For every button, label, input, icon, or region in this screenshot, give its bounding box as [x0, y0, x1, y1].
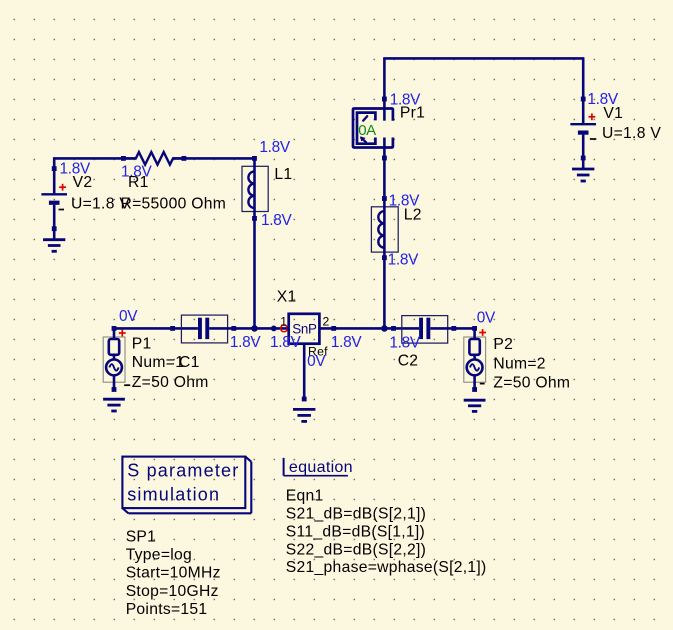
label V2 value: [71, 196, 130, 213]
power port P1: [103, 328, 125, 389]
label C1 name: [179, 354, 200, 371]
label SP1 Start: [126, 565, 221, 582]
svg-text:S parameter: S parameter: [127, 461, 239, 481]
wire down to V1: [582, 58, 585, 99]
wire V2 top vertical stub: [53, 157, 56, 168]
P1 plus sign: [119, 330, 126, 337]
ground below X1 Ref: [293, 409, 315, 421]
junction node L2/main line: [381, 325, 388, 332]
label Pr1 name: [400, 104, 425, 121]
svg-text:Eqn1: Eqn1: [286, 488, 324, 505]
X1 pin 2 label: [323, 315, 330, 329]
node V1 minus terminal: [581, 156, 586, 161]
label P1 Num: [132, 354, 184, 371]
inductor L2: [371, 199, 398, 258]
label R1 name: [128, 174, 149, 191]
svg-text:Num=2: Num=2: [493, 356, 545, 373]
svg-text:simulation: simulation: [127, 485, 220, 505]
wire C2 to P2 corner: [430, 327, 474, 330]
wire V2 to ground: [53, 229, 56, 239]
svg-text:P2: P2: [493, 336, 513, 353]
node R1 left port: [121, 156, 126, 161]
node label X1 port1 1.8V: [270, 334, 301, 351]
label SP1 Points: [126, 601, 208, 618]
svg-text:SP1: SP1: [126, 529, 157, 546]
node label V1 1.8V: [587, 91, 618, 108]
label P2 name: [493, 336, 513, 353]
node C2 left port: [391, 326, 396, 331]
X1 pin 1 label: [280, 315, 287, 329]
svg-text:S22_dB=dB(S[2,2]): S22_dB=dB(S[2,2]): [286, 541, 426, 558]
node P1 top corner: [112, 326, 117, 331]
svg-text:Stop=10GHz: Stop=10GHz: [126, 583, 219, 600]
svg-text:1.8V: 1.8V: [259, 139, 290, 156]
equation block Eqn1: [284, 458, 353, 476]
node L2 top port: [382, 196, 387, 201]
label P1 name: [132, 335, 152, 352]
svg-text:1.8V: 1.8V: [389, 334, 420, 351]
power port P2: [464, 328, 486, 389]
svg-text:S21_dB=dB(S[2,1]): S21_dB=dB(S[2,1]): [286, 506, 426, 523]
svg-text:0V: 0V: [119, 308, 138, 325]
label P2 Num: [493, 356, 545, 373]
svg-text:0V: 0V: [477, 309, 496, 326]
node label L2 bottom 1.8V: [388, 251, 419, 268]
ground below P2: [464, 400, 486, 411]
node label R1 left 1.8V: [121, 164, 152, 181]
ground below V1: [572, 169, 594, 181]
wire L2 down to main line: [383, 258, 386, 329]
V1 minus sign: [590, 138, 596, 140]
node X1 port 1: [271, 326, 277, 332]
P2 minus sign: [480, 383, 485, 385]
V2 minus sign: [59, 209, 64, 211]
wire P1 to C1: [114, 327, 198, 330]
node L1 top corner junction: [252, 156, 257, 161]
node label Ref 0V: [307, 353, 326, 370]
label V2 name: [73, 174, 93, 191]
junction node L1/main line: [251, 325, 258, 332]
label P1 Z: [132, 374, 209, 391]
node C2 right port: [451, 326, 456, 331]
svg-text:1: 1: [280, 315, 287, 329]
svg-text:1.8V: 1.8V: [331, 334, 362, 351]
svg-text:2: 2: [323, 315, 330, 329]
svg-text:C2: C2: [398, 353, 419, 370]
S parameter simulation block SP1: [122, 457, 251, 514]
node Ref wire end: [302, 397, 307, 402]
node P2 top corner: [472, 326, 477, 331]
node label Pr1 top 1.8V: [390, 91, 421, 108]
svg-text:Z=50 Ohm: Z=50 Ohm: [493, 374, 570, 391]
svg-text:1.8V: 1.8V: [230, 334, 261, 351]
svg-text:R=55000 Ohm: R=55000 Ohm: [121, 196, 227, 213]
svg-text:C1: C1: [179, 354, 200, 371]
V2 plus sign: [59, 184, 66, 191]
resistor R1: [123, 152, 183, 165]
svg-text:L1: L1: [274, 166, 292, 183]
svg-text:0A: 0A: [358, 122, 376, 139]
label L1 name: [274, 166, 292, 183]
svg-text:Points=151: Points=151: [126, 601, 208, 618]
wire top-left horizontal from V2 to R1: [54, 157, 136, 160]
node P1 bottom: [112, 387, 117, 392]
node V2 minus terminal: [52, 226, 57, 231]
wire R1 to L1 top corner: [172, 157, 254, 160]
inductor L1: [242, 158, 268, 218]
node X1 port 2: [331, 326, 336, 331]
svg-text:Type=log: Type=log: [126, 547, 192, 564]
S-parameter file X1: [289, 314, 320, 344]
equation line S21_phase: [286, 559, 487, 576]
node label P1 0V: [119, 308, 138, 325]
node P2 bottom: [472, 387, 477, 392]
equation line S21_dB: [286, 506, 426, 523]
label Eqn1 name: [286, 488, 324, 505]
node label L2 top 1.8V: [389, 192, 420, 209]
label R1 value: [121, 196, 227, 213]
wire top horizontal Pr1 to V1: [383, 57, 584, 60]
P1 minus sign: [124, 384, 130, 386]
equation line S22_dB: [286, 541, 426, 558]
node Pr1 bottom port: [382, 156, 387, 161]
svg-text:S21_phase=wphase(S[2,1]): S21_phase=wphase(S[2,1]): [286, 559, 487, 576]
node Pr1 top port: [382, 97, 387, 102]
label V1 value: [602, 125, 661, 142]
svg-text:0V: 0V: [307, 353, 326, 370]
svg-text:X1: X1: [277, 288, 297, 305]
wire down to Pr1: [383, 58, 386, 99]
wire X1 port 2 to C2: [319, 327, 419, 330]
label SP1 name: [126, 529, 157, 546]
svg-text:1.8V: 1.8V: [388, 251, 419, 268]
label L2 name: [404, 206, 422, 223]
svg-text:P1: P1: [132, 335, 152, 352]
node label L1 top 1.8V: [259, 139, 290, 156]
node C1 left port: [170, 326, 175, 331]
label C2 name: [398, 353, 419, 370]
voltage source V1: [570, 99, 596, 158]
svg-text:S11_dB=dB(S[1,1]): S11_dB=dB(S[1,1]): [286, 523, 425, 540]
wire C1 to X1 port 1: [209, 327, 289, 330]
svg-text:Z=50 Ohm: Z=50 Ohm: [132, 374, 209, 391]
svg-text:R1: R1: [128, 174, 149, 191]
node V1 plus terminal: [581, 97, 586, 102]
svg-text:1.8V: 1.8V: [270, 334, 301, 351]
ground below P1: [103, 399, 125, 411]
svg-text:Pr1: Pr1: [400, 104, 425, 121]
label P2 Z: [493, 374, 570, 391]
node label C2 left 1.8V: [389, 334, 420, 351]
node L1 bottom port: [252, 216, 257, 221]
capacitor C2: [402, 316, 448, 344]
svg-text:1.8V: 1.8V: [261, 212, 292, 229]
V1 plus sign: [589, 113, 596, 120]
X1 Ref wire down: [303, 344, 306, 399]
Pr1 reading 0A: [358, 122, 376, 139]
wire Pr1 to L2: [383, 158, 386, 199]
svg-text:L2: L2: [404, 206, 422, 223]
equation line S11_dB: [286, 523, 425, 540]
svg-text:U=1.8 V: U=1.8 V: [602, 125, 661, 142]
voltage source V2: [41, 169, 67, 229]
ground below V2: [43, 240, 65, 252]
current probe Pr1: [353, 99, 393, 158]
P2 plus sign: [479, 329, 486, 336]
node C1 right port: [231, 326, 236, 331]
capacitor C1: [181, 315, 227, 343]
X1 Ref pin label: [308, 344, 328, 358]
X1 port 1 red marker circle: [281, 325, 288, 332]
node label L1 bottom 1.8V: [261, 212, 292, 229]
node label P2 0V: [477, 309, 496, 326]
node label V2 1.8V: [60, 161, 91, 178]
label SP1 Stop: [126, 583, 219, 600]
svg-text:Num=1: Num=1: [132, 354, 184, 371]
svg-text:Start=10MHz: Start=10MHz: [126, 565, 221, 582]
wire V1 to ground: [582, 158, 585, 168]
wire L1 down to main line: [253, 218, 256, 328]
node V2 plus terminal: [52, 166, 57, 171]
node L2 bottom port: [382, 255, 387, 260]
node R1 right port: [182, 156, 187, 161]
label V1 name: [603, 105, 623, 122]
label SP1 Type: [126, 547, 192, 564]
svg-text:V1: V1: [603, 105, 623, 122]
node label C1 right 1.8V: [230, 334, 261, 351]
svg-text:V2: V2: [73, 174, 93, 191]
node label X1 port2 1.8V: [331, 334, 362, 351]
label X1 name: [277, 288, 297, 305]
svg-text:equation: equation: [289, 458, 353, 476]
